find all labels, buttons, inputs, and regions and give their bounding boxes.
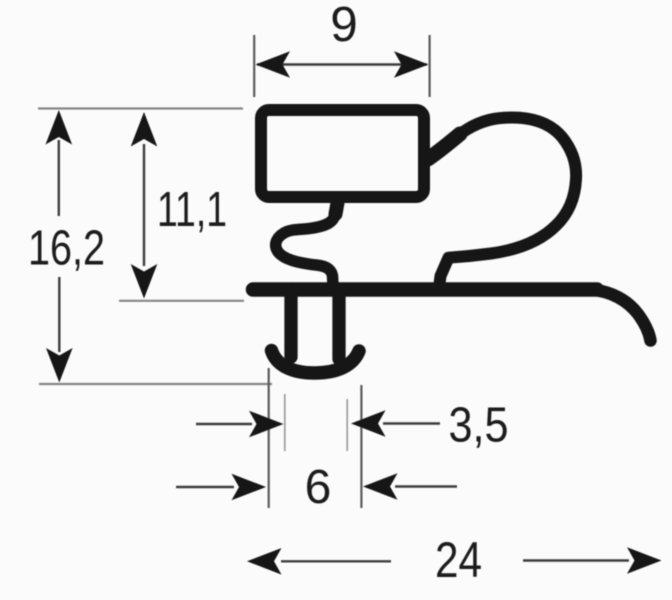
arrowhead 16,2 up xyxy=(46,110,73,145)
thin extension lines xyxy=(38,35,430,508)
dimension labels xyxy=(28,0,509,588)
dim line 6 left tail xyxy=(176,486,234,488)
svg-text:24: 24 xyxy=(435,531,482,588)
extension line 3,5-left vertical xyxy=(284,394,286,451)
dim line 24 left tail xyxy=(281,560,391,562)
extension line lower-left horizontal y384 xyxy=(39,383,272,385)
dart crescent foot xyxy=(272,351,360,374)
extension line 6-right vertical xyxy=(360,385,362,508)
svg-text:6: 6 xyxy=(305,461,332,514)
dart left leg xyxy=(284,289,297,357)
dart right leg xyxy=(332,289,345,359)
extension line 3,5-right vertical xyxy=(346,399,348,451)
arrowhead 6 right (points left) xyxy=(363,473,398,500)
extension line 9-left vertical xyxy=(253,35,255,97)
bar tail xyxy=(590,290,651,341)
arrowhead 11,1 up xyxy=(131,112,158,147)
stem thick upper part xyxy=(336,200,339,214)
svg-text:3,5: 3,5 xyxy=(449,398,509,453)
arrowhead 24 left (points left) xyxy=(247,548,282,575)
arrowhead 9 right xyxy=(394,51,429,78)
extension line top-left horizontal y108 xyxy=(38,107,243,109)
arrowhead 6 left (points right) xyxy=(232,474,267,501)
arrowhead 9 left xyxy=(256,51,291,78)
arrowhead 3,5 left (points right) xyxy=(249,411,284,438)
dim line 16,2 upper segment xyxy=(58,140,60,216)
dim line 6 right tail xyxy=(395,485,457,487)
gasket profile xyxy=(253,110,651,373)
svg-text:16,2: 16,2 xyxy=(28,221,105,276)
dimension lines xyxy=(59,65,629,562)
base bar xyxy=(253,282,597,297)
extension line 9-right vertical xyxy=(429,35,431,97)
arrowhead 11,1 down xyxy=(131,264,158,299)
S-curve stem xyxy=(276,200,338,286)
arrowhead 3,5 right (points left) xyxy=(351,410,386,437)
extension line mid horizontal y301 xyxy=(119,300,244,302)
balloon lip attachment xyxy=(428,134,460,159)
dim line 16,2 lower segment xyxy=(58,277,60,352)
dim line 24 right tail xyxy=(523,559,629,561)
dim line 3,5 left tail xyxy=(196,423,252,425)
arrowheads xyxy=(46,51,662,574)
arrowhead 16,2 down xyxy=(46,348,73,383)
dim line 9 xyxy=(257,63,427,65)
gasket head rounded rectangle xyxy=(261,110,424,197)
svg-text:9: 9 xyxy=(330,0,358,52)
balloon lip loop xyxy=(430,118,576,285)
svg-text:11,1: 11,1 xyxy=(157,182,227,237)
dim line 3,5 right tail xyxy=(383,422,440,424)
extension line 6-left vertical xyxy=(268,368,270,508)
arrowhead 24 right (points right) xyxy=(627,547,662,574)
dim line 11,1 xyxy=(143,144,145,266)
